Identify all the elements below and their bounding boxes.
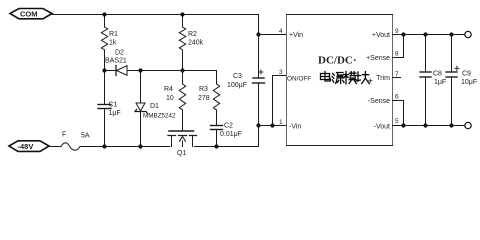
wire Trim stub	[393, 77, 401, 79]
resistor R4	[164, 71, 186, 110]
node C8 bottom	[423, 123, 427, 127]
wire +V output rail	[404, 34, 465, 36]
svg-text:C9: C9	[462, 71, 471, 78]
svg-text:1μF: 1μF	[109, 110, 121, 117]
wire bottom rail right	[195, 146, 259, 148]
net flag COM	[10, 9, 52, 19]
svg-text:+Vin: +Vin	[289, 32, 303, 39]
wire bottom rail left	[84, 146, 170, 148]
svg-text:D2: D2	[115, 50, 124, 57]
svg-text:C2: C2	[224, 123, 233, 130]
svg-text:BAS21: BAS21	[105, 58, 127, 65]
node D1 top	[138, 68, 142, 72]
svg-text:-Sense: -Sense	[368, 98, 390, 105]
capacitor C2 0.01uF	[211, 123, 242, 147]
node C2 bottom	[214, 144, 218, 148]
wire -Vin stub to module pin 1	[259, 125, 287, 127]
svg-text:10μF: 10μF	[461, 79, 477, 86]
svg-text:0.01μF: 0.01μF	[220, 131, 242, 138]
node +Vout bracket	[401, 32, 405, 36]
wire C3 column	[258, 35, 260, 78]
capacitor C8 1uF	[420, 35, 446, 126]
wire +Vin stub to module pin 4	[259, 34, 287, 36]
capacitor C1 1uF	[98, 71, 121, 147]
resistor R1	[101, 15, 118, 71]
svg-text:278: 278	[198, 95, 210, 102]
node -Vout bracket	[401, 123, 405, 127]
svg-text:5: 5	[395, 118, 399, 125]
svg-text:Trim: Trim	[376, 75, 390, 82]
node C1 bottom	[102, 144, 106, 148]
svg-text:-Vin: -Vin	[289, 124, 301, 131]
svg-text:10: 10	[166, 95, 174, 102]
svg-text:100μF: 100μF	[227, 82, 247, 89]
svg-text:COM: COM	[20, 10, 38, 19]
svg-text:MMBZ5242: MMBZ5242	[143, 113, 176, 120]
svg-text:8: 8	[395, 51, 399, 58]
svg-text:6: 6	[395, 94, 399, 101]
node C8 top	[423, 32, 427, 36]
svg-text:1μF: 1μF	[434, 79, 446, 86]
node C9 bottom	[449, 123, 453, 127]
svg-text:C3: C3	[233, 73, 242, 80]
transistor Q1 MOSFET	[168, 110, 197, 157]
wire -V output rail	[404, 125, 465, 127]
svg-text:9: 9	[395, 28, 399, 35]
svg-text:-48V: -48V	[18, 142, 34, 151]
node R1 bottom	[102, 68, 106, 72]
svg-text:ON/OFF: ON/OFF	[287, 76, 311, 83]
svg-text:C8: C8	[433, 71, 442, 78]
svg-text:3: 3	[279, 69, 283, 76]
wire D2 node to R3 corner	[141, 71, 217, 85]
capacitor C9 10uF polarized	[446, 35, 477, 126]
wire +Vout/+Sense bracket	[393, 35, 404, 58]
svg-text:+Sense: +Sense	[366, 55, 390, 62]
resistor R2	[179, 15, 203, 71]
diode D2 BAS21	[105, 50, 141, 76]
terminal +V output	[465, 31, 471, 37]
terminal -V output	[465, 122, 471, 128]
svg-text:R2: R2	[188, 31, 197, 38]
zener diode D1 MMBZ5242	[135, 71, 176, 147]
svg-text:R3: R3	[199, 86, 208, 93]
svg-text:R1: R1	[109, 31, 118, 38]
wire left rail riser	[258, 126, 260, 147]
svg-text:Q1: Q1	[177, 150, 186, 157]
node ON/OFF junction	[270, 123, 274, 127]
svg-text:D1: D1	[150, 103, 159, 110]
svg-text:5A: 5A	[81, 133, 90, 140]
wire top rail from COM	[52, 14, 259, 16]
wire -Sense/-Vout bracket	[393, 101, 404, 126]
node +Vin junction	[256, 32, 260, 36]
svg-text:240k: 240k	[188, 40, 204, 47]
svg-text:1: 1	[279, 119, 283, 126]
node D1 bottom	[138, 144, 142, 148]
node R2 bottom	[180, 68, 184, 72]
net flag -48V	[9, 141, 49, 152]
svg-text:C1: C1	[109, 102, 118, 109]
svg-text:R4: R4	[164, 86, 173, 93]
svg-text:+Vout: +Vout	[372, 32, 390, 39]
DC/DC module U1 box	[287, 15, 393, 146]
module label Chinese 电源模块	[321, 72, 370, 85]
fuse F 5A	[49, 132, 90, 151]
wire ON/OFF riser to pin 3	[273, 76, 287, 126]
svg-text:1k: 1k	[109, 40, 117, 47]
wire corner down to +Vin node	[258, 15, 260, 35]
svg-text:DC/DC·: DC/DC·	[318, 55, 357, 67]
wire C3 bottom to -Vin node	[258, 83, 260, 126]
svg-text:-Vout: -Vout	[374, 124, 390, 131]
module label trailing plus	[369, 79, 372, 82]
node C9 top	[449, 32, 453, 36]
resistor R3	[198, 84, 220, 126]
svg-text:7: 7	[395, 71, 399, 78]
node R1 top	[102, 12, 106, 16]
node C3/-Vin junction	[256, 123, 260, 127]
capacitor C3 100uF polarized	[227, 70, 265, 89]
svg-text:4: 4	[279, 28, 283, 35]
node R2 top	[180, 12, 184, 16]
svg-text:F: F	[62, 132, 66, 139]
